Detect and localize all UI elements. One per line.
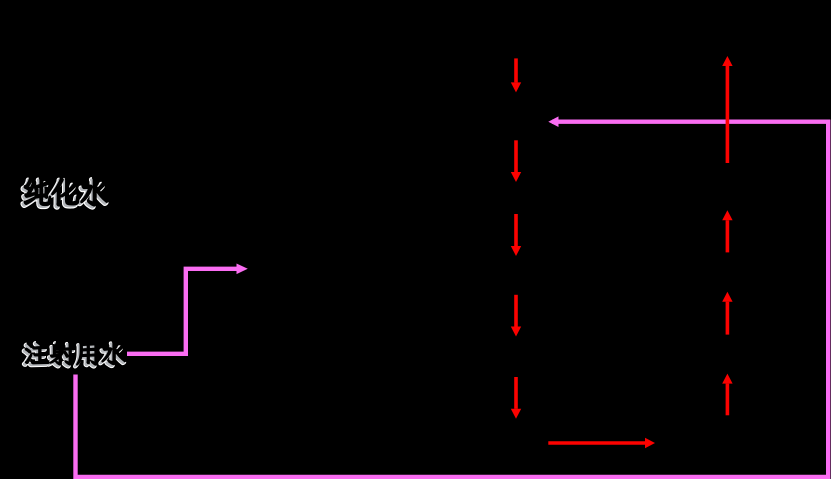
arrow: return flow up 1 (long, crosses magenta) [722, 56, 732, 163]
arrow: bottom horizontal right [548, 438, 655, 448]
wire: magenta feed from WFI label up and right [127, 269, 237, 354]
arrow: process flow down 3 [511, 214, 521, 256]
node label: purified water (纯化水) text [23, 178, 109, 208]
arrow: return flow up 2 [722, 210, 732, 252]
arrow: process flow down 4 [511, 295, 521, 337]
arrow: process flow down 2 [511, 140, 521, 182]
arrowhead: magenta right-pointing [237, 264, 248, 275]
wire: magenta recirculation loop (right edge, bottom, up to WFI label) [76, 122, 829, 477]
node label: water for injection (注射用水) text [24, 341, 127, 367]
arrow: process flow down 1 [511, 58, 521, 92]
arrowhead: magenta left-pointing into top node [548, 116, 558, 127]
arrow: return flow up 3 [722, 292, 732, 335]
arrow: process flow down 5 [511, 377, 521, 419]
arrow: return flow up 4 [722, 374, 732, 416]
